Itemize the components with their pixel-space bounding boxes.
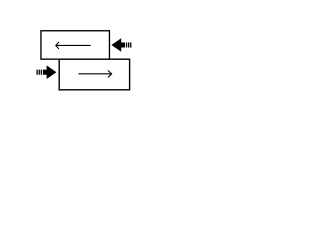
arrow left (thin arrow inside upper box) xyxy=(56,42,91,49)
box top (upper rectangle) xyxy=(41,31,110,59)
bold arrow in (solid left-pointing arrow with ribbed tail, right of upper box) xyxy=(111,38,131,52)
arrow right (thin arrow inside lower box) xyxy=(79,70,112,77)
box bottom (lower rectangle) xyxy=(59,59,129,90)
bold arrow out (solid right-pointing arrow with ribbed tail, left of lower box) xyxy=(37,65,57,79)
background xyxy=(0,0,170,110)
